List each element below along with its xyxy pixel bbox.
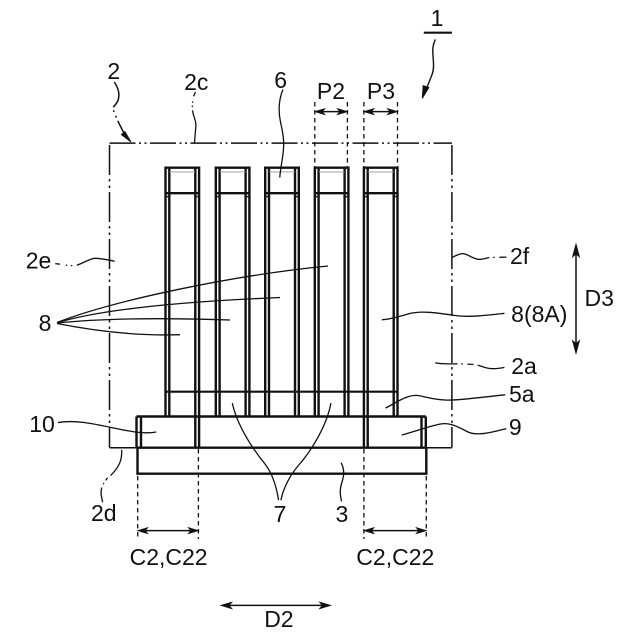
dimension arrow D2: [221, 602, 331, 609]
svg-text:2f: 2f: [510, 243, 530, 269]
housing outline 2 (two-dot chain rectangle): [110, 143, 452, 448]
tooth 5 electrode: [364, 168, 398, 417]
leader for 6: [279, 90, 283, 178]
leader for 2e: [55, 258, 114, 265]
svg-text:5a: 5a: [509, 381, 535, 407]
svg-text:9: 9: [509, 414, 522, 440]
leader for 5a: [386, 395, 506, 408]
extension lines C2,C22 right: [364, 449, 426, 539]
svg-text:2: 2: [107, 58, 120, 84]
leader for 1: [422, 39, 435, 98]
leader for 8(8A): [382, 312, 505, 320]
dimension arrow P2: [315, 109, 348, 115]
leader for 2: [113, 82, 131, 142]
svg-text:D2: D2: [264, 606, 293, 632]
svg-text:P2: P2: [317, 78, 345, 104]
leader for 3: [340, 463, 343, 502]
svg-text:8: 8: [39, 310, 52, 336]
svg-text:D3: D3: [585, 285, 614, 311]
extension lines for P2 P3: [315, 102, 398, 167]
svg-text:10: 10: [29, 411, 55, 437]
leader for 2c: [192, 92, 196, 144]
svg-text:2d: 2d: [91, 500, 117, 526]
leader for 10: [58, 422, 156, 433]
dimension arrow C2,C22 left: [138, 528, 199, 534]
svg-text:7: 7: [274, 501, 287, 527]
dimension arrow P3: [364, 109, 398, 115]
tooth 4 electrode: [315, 168, 349, 417]
svg-text:8(8A): 8(8A): [511, 301, 567, 327]
dimension arrow D3: [573, 244, 580, 354]
svg-text:P3: P3: [367, 78, 395, 104]
tooth 1 electrode: [166, 168, 200, 417]
leader for 2f: [452, 254, 506, 260]
svg-text:2c: 2c: [184, 69, 208, 95]
dimension arrow C2,C22 right: [364, 528, 426, 534]
substrate 3 (lower base bar): [138, 448, 427, 474]
leader for 2a: [435, 363, 504, 369]
leader for 9: [402, 424, 507, 435]
svg-text:3: 3: [336, 501, 349, 527]
electrode layer line 5a (horizontal line across teeth): [166, 391, 399, 393]
svg-text:2e: 2e: [26, 248, 52, 274]
tooth 2 electrode: [216, 168, 250, 417]
label 1: [424, 5, 452, 33]
svg-text:6: 6: [274, 67, 287, 93]
svg-text:2a: 2a: [511, 353, 537, 379]
leaders for 7 (V shape to slots): [232, 403, 331, 500]
tooth 3 electrode: [265, 168, 299, 417]
leader for 2d: [101, 450, 122, 503]
holder bar 5a (upper base bar): [137, 417, 427, 448]
extension lines C2,C22 left: [138, 449, 199, 539]
svg-text:1: 1: [431, 5, 444, 31]
svg-text:C2,C22: C2,C22: [130, 544, 208, 570]
leaders for 8 (four curves to teeth 1-4): [57, 266, 328, 335]
svg-text:C2,C22: C2,C22: [356, 544, 434, 570]
